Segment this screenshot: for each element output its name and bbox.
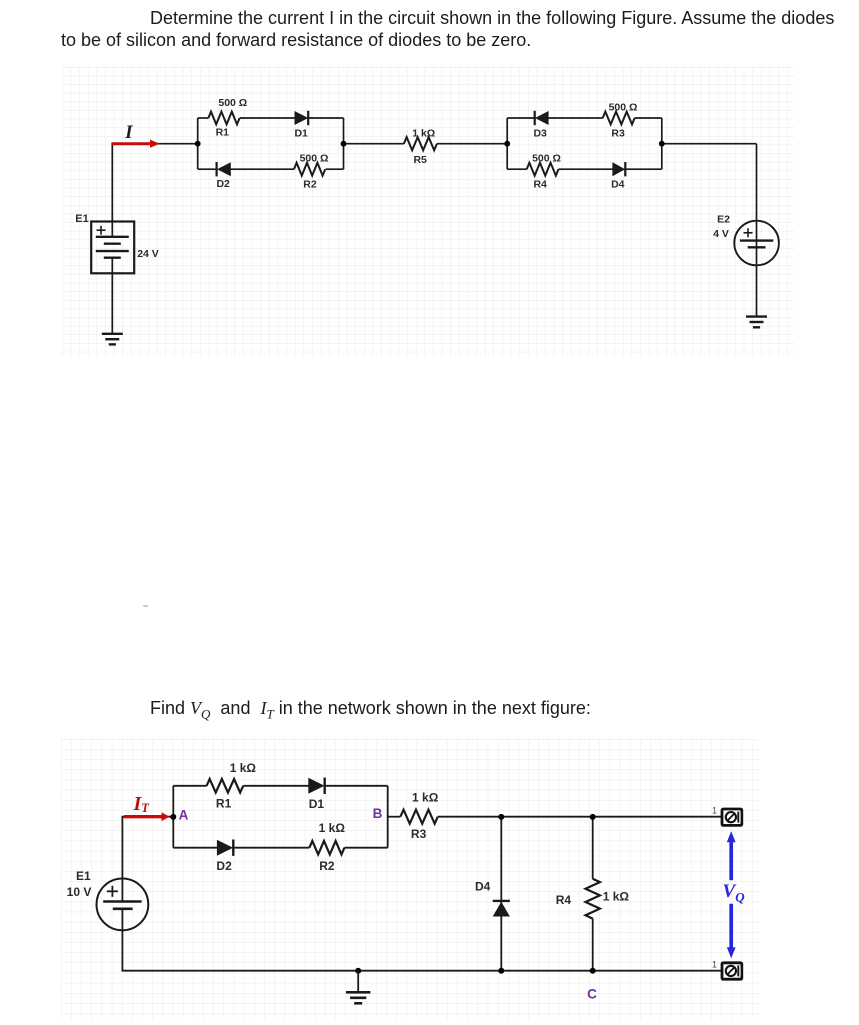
source E2 (4 V): [734, 221, 779, 266]
ground circuit 2: [346, 971, 370, 1004]
resistor R3: [603, 112, 635, 125]
terminal port bottom (node 1): [722, 963, 742, 979]
svg-text:E1: E1: [76, 869, 91, 883]
problem statement line 1: [150, 9, 834, 27]
ground below E2: [746, 317, 767, 328]
VQ measurement arrow up (blue): [727, 831, 736, 880]
svg-text:C: C: [587, 987, 597, 1002]
svg-text:500 Ω: 500 Ω: [218, 97, 247, 109]
resistor R5: [404, 137, 437, 150]
wire: R3 to top terminal: [438, 816, 722, 818]
wire: box2 left edge: [506, 118, 508, 169]
wire: box top branch mid: [243, 785, 309, 787]
wire: corner to node A: [122, 816, 174, 818]
wire: box2 top branch right: [635, 117, 662, 119]
terminal port top (node 1): [722, 809, 742, 825]
svg-text:R5: R5: [413, 154, 427, 166]
svg-text:R3: R3: [611, 127, 625, 139]
svg-text:B: B: [373, 806, 383, 821]
svg-text:E2: E2: [717, 214, 730, 226]
wire: box1 top branch left: [198, 117, 209, 119]
problem statement 2: [150, 699, 591, 721]
diode D3 (points left): [535, 111, 549, 125]
wire: box bottom branch left: [173, 847, 218, 849]
wire: box right edge: [387, 786, 389, 848]
grid background circuit 2: [61, 739, 759, 1019]
component labels circuit 2: [216, 761, 629, 907]
svg-text:D4: D4: [611, 178, 625, 190]
svg-text:1 kΩ: 1 kΩ: [603, 890, 630, 904]
component labels circuit 1: [216, 97, 638, 190]
problem statement line 2: [61, 31, 531, 49]
diode D4 (circuit 2, points up): [493, 901, 510, 917]
wire: right vertical down to E2: [756, 144, 758, 240]
wire: main horizontal into first diode pair: [111, 143, 197, 145]
wire: box1 right edge: [343, 118, 345, 169]
wire: box1 top branch mid: [240, 117, 296, 119]
diode D4: [612, 162, 625, 176]
resistor R2: [294, 163, 325, 176]
grid background circuit 1: [62, 67, 795, 357]
resistor R2 (circuit 2): [309, 841, 344, 855]
resistor R4: [527, 163, 559, 176]
diode D2 (points left): [217, 162, 231, 176]
wire: box top branch right: [324, 785, 388, 787]
resistor R1 (circuit 2): [207, 779, 244, 793]
svg-text:D1: D1: [309, 797, 325, 811]
wire: box1 left edge: [197, 118, 199, 169]
svg-text:4 V: 4 V: [713, 228, 729, 240]
stray mark: [143, 605, 148, 607]
wire: box1 bottom branch right: [326, 168, 344, 170]
wire: node B to R3: [388, 816, 401, 818]
svg-text:1: 1: [712, 806, 717, 816]
svg-text:R1: R1: [216, 796, 232, 810]
svg-text:500 Ω: 500 Ω: [609, 101, 638, 113]
svg-text:D4: D4: [475, 880, 491, 894]
wire: R4 branch vertical upper: [592, 817, 594, 879]
wire: box top branch left: [173, 785, 206, 787]
svg-text:10 V: 10 V: [67, 885, 92, 899]
battery E1 (24 V): [91, 222, 134, 274]
wire: E1 bottom to bottom rail: [121, 909, 123, 971]
svg-text:D3: D3: [533, 127, 547, 139]
current arrow I (red): [112, 140, 160, 148]
wire: box2 bottom branch right: [624, 168, 662, 170]
wire: D4 branch vertical: [500, 817, 502, 971]
svg-text:1: 1: [712, 959, 717, 969]
svg-text:1 kΩ: 1 kΩ: [412, 790, 439, 804]
wire: left vertical from node I corner down to battery E1: [111, 144, 113, 237]
wire: box2 right edge: [661, 118, 663, 169]
svg-text:1 kΩ: 1 kΩ: [230, 761, 257, 775]
svg-text:R2: R2: [303, 178, 317, 190]
svg-text:A: A: [179, 808, 189, 823]
wire: box2 top branch left: [507, 117, 536, 119]
node junction dots circuit 1: [195, 141, 665, 147]
svg-text:I: I: [124, 123, 133, 143]
svg-text:1 kΩ: 1 kΩ: [319, 821, 346, 835]
resistor R4 (circuit 2, vertical): [586, 879, 600, 919]
wire: node between box1 and R5: [344, 143, 404, 145]
wire: box left edge: [172, 786, 174, 848]
svg-text:R2: R2: [319, 859, 335, 873]
diode D1 (circuit 2): [308, 778, 324, 794]
wire: box2 to top-right corner: [662, 143, 757, 145]
wire: box2 bottom branch left: [507, 168, 527, 170]
wire: R5 to box2: [437, 143, 507, 145]
svg-text:R4: R4: [556, 893, 572, 907]
current arrow IT (red): [124, 812, 170, 821]
wire: box1 bottom branch mid: [230, 168, 294, 170]
svg-text:R1: R1: [216, 126, 230, 138]
wire: box2 bottom branch mid: [559, 168, 614, 170]
resistor R3 (circuit 2): [400, 810, 437, 824]
wire: E2 bottom to ground: [756, 248, 758, 317]
wire: box1 top branch right: [307, 117, 343, 119]
wire: box2 top branch mid: [548, 117, 603, 119]
svg-text:E1: E1: [75, 213, 88, 225]
svg-text:D2: D2: [216, 178, 230, 190]
svg-text:1 kΩ: 1 kΩ: [412, 128, 435, 140]
svg-text:R4: R4: [533, 178, 547, 190]
wire: box bottom branch right: [344, 847, 387, 849]
wire: R4 branch vertical lower: [592, 919, 594, 971]
svg-text:500 Ω: 500 Ω: [300, 153, 329, 165]
svg-text:500 Ω: 500 Ω: [532, 153, 561, 165]
wire: box1 bottom branch left: [198, 168, 218, 170]
wire: bottom rail to bottom terminal: [122, 970, 722, 972]
diode D2 (circuit 2): [217, 840, 233, 856]
wire: box bottom branch mid: [232, 847, 309, 849]
svg-text:24 V: 24 V: [137, 248, 159, 260]
svg-text:D1: D1: [294, 127, 308, 139]
resistor R1: [208, 112, 239, 125]
svg-text:D2: D2: [216, 859, 232, 873]
wire: left vertical from node A corner down to E1 source: [121, 817, 123, 902]
svg-text:R3: R3: [411, 827, 427, 841]
ground below E1: [102, 273, 123, 344]
source E1 (10 V): [97, 879, 149, 931]
node junction dots circuit 2: [170, 814, 595, 974]
VQ measurement arrow down (blue): [727, 904, 736, 959]
diode D1: [295, 111, 309, 125]
